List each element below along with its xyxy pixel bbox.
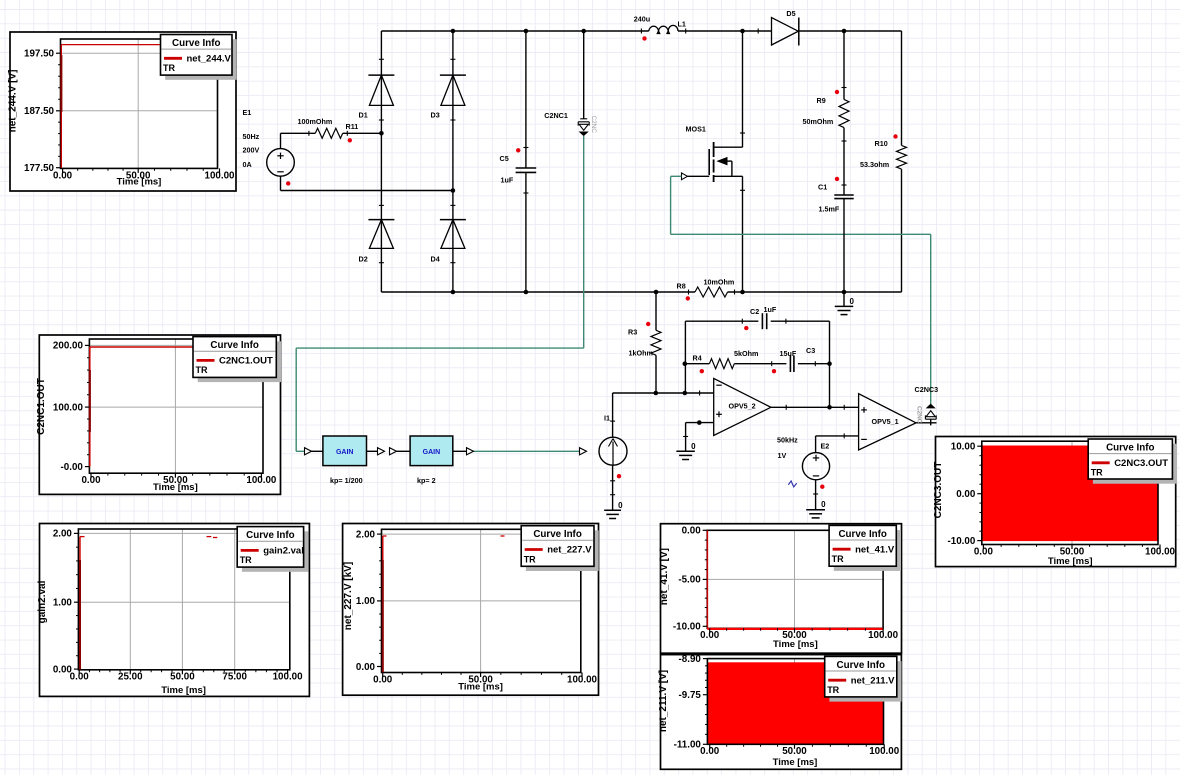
svg-text:2.00: 2.00 <box>53 529 73 540</box>
svg-text:L1: L1 <box>678 19 686 28</box>
svg-text:0.00: 0.00 <box>53 170 73 181</box>
svg-text:R4: R4 <box>693 353 702 362</box>
svg-text:-10.00: -10.00 <box>673 622 701 633</box>
svg-text:Curve Info: Curve Info <box>1106 442 1154 453</box>
svg-text:C3: C3 <box>806 346 815 355</box>
svg-text:100.00: 100.00 <box>1145 546 1176 557</box>
svg-text:TR: TR <box>196 365 208 375</box>
svg-text:15uF: 15uF <box>780 349 797 358</box>
svg-text:C2NC3.OUT: C2NC3.OUT <box>1114 458 1168 469</box>
svg-text:53.3ohm: 53.3ohm <box>860 160 889 169</box>
svg-text:50Hz: 50Hz <box>243 132 260 141</box>
svg-text:TR: TR <box>163 63 175 73</box>
svg-text:C2NC1.OUT: C2NC1.OUT <box>219 356 273 367</box>
svg-text:Curve Info: Curve Info <box>246 530 294 541</box>
svg-text:-10.00: -10.00 <box>948 536 976 547</box>
svg-text:0.00: 0.00 <box>373 674 393 685</box>
svg-text:C1: C1 <box>818 183 827 192</box>
svg-text:0.00: 0.00 <box>81 475 101 486</box>
svg-text:0: 0 <box>691 442 696 451</box>
svg-text:0.00: 0.00 <box>956 489 976 500</box>
svg-text:C2: C2 <box>750 307 759 316</box>
svg-text:E2: E2 <box>821 442 830 451</box>
svg-text:100.00: 100.00 <box>53 402 84 413</box>
svg-text:Time [ms]: Time [ms] <box>1048 556 1093 567</box>
svg-text:2.00: 2.00 <box>356 529 376 540</box>
svg-text:0.00: 0.00 <box>700 746 720 757</box>
svg-text:C5: C5 <box>500 154 509 163</box>
svg-text:TR: TR <box>827 685 839 695</box>
svg-text:197.50: 197.50 <box>24 49 55 60</box>
svg-text:1.00: 1.00 <box>53 598 73 609</box>
svg-text:200.00: 200.00 <box>53 341 84 352</box>
svg-text:net_41.V [V]: net_41.V [V] <box>659 548 670 605</box>
svg-text:240u: 240u <box>634 15 650 24</box>
svg-text:100mOhm: 100mOhm <box>298 117 333 126</box>
svg-text:net_211.V: net_211.V <box>851 675 895 686</box>
svg-text:Time [ms]: Time [ms] <box>117 177 162 188</box>
svg-text:0.00: 0.00 <box>356 662 376 673</box>
svg-text:0: 0 <box>618 501 623 510</box>
svg-text:MOS1: MOS1 <box>686 125 706 134</box>
svg-text:5kOhm: 5kOhm <box>734 349 758 358</box>
svg-text:100.00: 100.00 <box>246 475 277 486</box>
svg-text:0.00: 0.00 <box>974 546 994 557</box>
svg-text:0.00: 0.00 <box>700 630 720 641</box>
svg-text:C2NC: C2NC <box>916 406 923 424</box>
svg-text:100.00: 100.00 <box>567 674 598 685</box>
svg-text:1.5mF: 1.5mF <box>819 205 840 214</box>
svg-text:C2NC1.OUT: C2NC1.OUT <box>36 378 47 435</box>
svg-text:200V: 200V <box>243 146 260 155</box>
svg-text:net_244.V: net_244.V <box>187 54 232 65</box>
svg-text:C2NC: C2NC <box>590 116 597 134</box>
svg-text:0: 0 <box>850 297 855 306</box>
svg-text:I1: I1 <box>604 414 610 423</box>
svg-text:0A: 0A <box>243 160 252 169</box>
svg-text:-9.75: -9.75 <box>679 690 702 701</box>
svg-text:TR: TR <box>524 554 536 564</box>
svg-text:1.00: 1.00 <box>356 596 376 607</box>
svg-text:C2NC1: C2NC1 <box>544 111 568 120</box>
svg-text:0.00: 0.00 <box>70 672 90 683</box>
svg-text:Curve Info: Curve Info <box>533 529 581 540</box>
svg-text:-0.00: -0.00 <box>61 462 84 473</box>
svg-text:net_244.V [V]: net_244.V [V] <box>8 70 19 133</box>
svg-text:0.00: 0.00 <box>682 526 702 537</box>
svg-text:D4: D4 <box>431 255 440 264</box>
svg-text:GAIN: GAIN <box>423 449 441 456</box>
svg-text:kp= 2: kp= 2 <box>417 476 436 485</box>
svg-text:1uF: 1uF <box>501 175 514 184</box>
svg-text:D3: D3 <box>431 111 440 120</box>
svg-text:-8.90: -8.90 <box>679 654 702 665</box>
svg-text:100.00: 100.00 <box>869 746 900 757</box>
svg-text:0: 0 <box>821 500 826 509</box>
svg-text:Curve Info: Curve Info <box>837 660 885 671</box>
svg-text:OPV5_1: OPV5_1 <box>872 417 899 426</box>
svg-text:net_211.V [V]: net_211.V [V] <box>658 670 669 732</box>
svg-text:kp= 1/200: kp= 1/200 <box>330 476 363 485</box>
svg-text:50.00: 50.00 <box>782 746 807 757</box>
svg-text:TR: TR <box>240 555 252 565</box>
svg-text:Curve Info: Curve Info <box>210 340 258 351</box>
svg-text:R10: R10 <box>875 139 888 148</box>
svg-text:Curve Info: Curve Info <box>838 529 886 540</box>
svg-text:10mOhm: 10mOhm <box>704 278 735 287</box>
svg-text:50mOhm: 50mOhm <box>803 117 834 126</box>
svg-text:D2: D2 <box>359 255 368 264</box>
svg-text:R8: R8 <box>677 282 686 291</box>
svg-text:net_41.V: net_41.V <box>855 544 895 555</box>
svg-text:100.00: 100.00 <box>868 630 899 641</box>
svg-text:E1: E1 <box>243 108 252 117</box>
svg-text:Time [ms]: Time [ms] <box>458 681 503 692</box>
svg-text:R3: R3 <box>628 328 637 337</box>
svg-text:net_227.V [kV]: net_227.V [kV] <box>343 562 354 630</box>
svg-text:187.50: 187.50 <box>24 106 55 117</box>
svg-text:50.00: 50.00 <box>170 672 195 683</box>
svg-text:C2NC3.OUT: C2NC3.OUT <box>933 462 944 519</box>
svg-text:Time [ms]: Time [ms] <box>161 685 206 696</box>
svg-text:1V: 1V <box>778 451 787 460</box>
svg-text:D5: D5 <box>786 9 795 18</box>
svg-text:50kHz: 50kHz <box>777 435 798 444</box>
svg-text:100.00: 100.00 <box>273 672 304 683</box>
svg-text:R9: R9 <box>817 96 826 105</box>
svg-text:gain2.val: gain2.val <box>263 546 304 557</box>
svg-text:TR: TR <box>1091 468 1103 478</box>
svg-text:Time [ms]: Time [ms] <box>773 639 818 650</box>
svg-text:-5.00: -5.00 <box>678 575 701 586</box>
svg-text:75.00: 75.00 <box>222 672 247 683</box>
svg-text:177.50: 177.50 <box>24 163 55 174</box>
svg-text:Time [ms]: Time [ms] <box>153 482 198 493</box>
svg-text:gain2.val: gain2.val <box>37 580 48 623</box>
svg-text:OPV5_2: OPV5_2 <box>729 402 756 411</box>
svg-text:100.00: 100.00 <box>205 170 236 181</box>
svg-text:Curve Info: Curve Info <box>172 38 220 49</box>
svg-text:C2NC3: C2NC3 <box>915 385 939 394</box>
svg-text:TR: TR <box>832 554 844 564</box>
svg-text:D1: D1 <box>359 111 368 120</box>
svg-text:25.00: 25.00 <box>118 672 143 683</box>
svg-text:10.00: 10.00 <box>951 442 976 453</box>
svg-text:R11: R11 <box>346 122 359 131</box>
svg-text:net_227.V: net_227.V <box>547 545 592 556</box>
svg-text:GAIN: GAIN <box>336 449 354 456</box>
svg-text:-11.00: -11.00 <box>674 740 702 751</box>
svg-text:Time [ms]: Time [ms] <box>773 757 818 768</box>
svg-text:1kOhm: 1kOhm <box>629 349 653 358</box>
svg-text:1uF: 1uF <box>764 305 777 314</box>
